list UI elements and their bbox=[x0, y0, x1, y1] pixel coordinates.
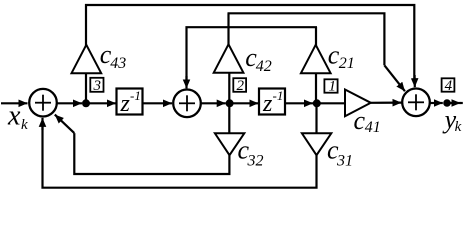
wire A2 to node 2 bbox=[201, 102, 226, 104]
wire feedback c32 to A1 bbox=[74, 133, 229, 174]
svg-text:41: 41 bbox=[365, 119, 381, 136]
label c42 bbox=[245, 43, 272, 75]
adder A2 bbox=[173, 90, 201, 118]
gain c43 bbox=[72, 45, 102, 73]
svg-text:c: c bbox=[354, 106, 366, 135]
label c21 bbox=[328, 40, 355, 72]
gain c31 bbox=[302, 133, 331, 155]
node box 3 bbox=[90, 78, 103, 94]
wire A1 to node 3 bbox=[57, 102, 82, 104]
label c32 bbox=[238, 135, 264, 169]
svg-text:4: 4 bbox=[445, 78, 453, 94]
arrow diagonal into A3 upper-left bbox=[384, 65, 405, 91]
arrow into A3 top bbox=[414, 75, 416, 87]
wire Z2 to node 1 bbox=[286, 102, 313, 104]
adder A1 bbox=[29, 89, 57, 117]
svg-text:k: k bbox=[455, 119, 462, 135]
delay Z1 bbox=[117, 88, 143, 117]
gain c41 bbox=[345, 90, 371, 117]
gain c21 bbox=[301, 45, 331, 73]
junction node 3 dot bbox=[82, 99, 90, 107]
wire c41 to A3 bbox=[371, 101, 402, 103]
node y_k label bbox=[442, 105, 462, 135]
wire node 2 to delay Z2 bbox=[230, 102, 259, 104]
wire feedback c31 to A1 bbox=[43, 124, 317, 188]
node box 4 bbox=[442, 78, 455, 94]
gain c42 bbox=[214, 44, 244, 72]
wire node 1 down to gain c31 bbox=[315, 103, 317, 133]
arrow into A1 bottom bbox=[41, 118, 43, 130]
label c31 bbox=[327, 135, 353, 169]
svg-text:21: 21 bbox=[339, 55, 355, 72]
arrow into A2 top bbox=[185, 76, 187, 88]
wire node 2 up to gain c42 bbox=[228, 73, 230, 103]
svg-text:2: 2 bbox=[237, 78, 245, 94]
wire node 4 to output y_k bbox=[447, 102, 461, 104]
svg-text:z: z bbox=[120, 91, 131, 117]
wire c21 apex up bbox=[315, 27, 317, 46]
svg-text:43: 43 bbox=[110, 55, 126, 72]
node box 1 bbox=[324, 79, 337, 95]
junction node 4 dot bbox=[443, 99, 451, 107]
arrow diagonal into A1 lower-right bbox=[55, 115, 75, 134]
wire c42 apex up bbox=[227, 13, 229, 45]
wire feedforward c42 to A3 bbox=[228, 13, 385, 65]
wire Z1 to A2 bbox=[144, 102, 173, 104]
wire feedback c21 to A2 bbox=[187, 27, 318, 82]
svg-text:k: k bbox=[21, 117, 28, 133]
label c41 bbox=[354, 106, 381, 136]
delay Z2 bbox=[259, 88, 285, 117]
svg-text:3: 3 bbox=[93, 78, 102, 94]
wire node 3 up to gain c43 bbox=[85, 73, 87, 103]
node x_k label bbox=[7, 100, 28, 133]
wire node 1 to gain c41 bbox=[317, 102, 345, 104]
node box 2 bbox=[233, 78, 246, 94]
gain c32 bbox=[215, 133, 244, 155]
svg-text:z: z bbox=[262, 91, 273, 117]
wire top feedforward c43 to A3 bbox=[85, 5, 414, 81]
wire node 1 up to gain c21 bbox=[315, 73, 317, 103]
svg-text:31: 31 bbox=[336, 152, 353, 169]
svg-text:-1: -1 bbox=[273, 88, 284, 103]
svg-text:42: 42 bbox=[256, 58, 272, 75]
junction node 1 dot bbox=[313, 99, 321, 107]
wire A3 to node 4 bbox=[430, 102, 443, 104]
wire input x_k line bbox=[1, 102, 28, 104]
svg-text:x: x bbox=[7, 100, 21, 131]
adder A3 bbox=[402, 89, 430, 117]
svg-text:-1: -1 bbox=[130, 88, 141, 103]
svg-text:1: 1 bbox=[329, 79, 337, 95]
svg-text:32: 32 bbox=[247, 152, 264, 169]
junction node 2 dot bbox=[226, 99, 234, 107]
wire node 3 to delay Z1 bbox=[86, 102, 116, 104]
wire node 2 down to gain c32 bbox=[228, 103, 230, 133]
label c43 bbox=[100, 40, 127, 72]
wire c43 apex up bbox=[85, 4, 87, 46]
